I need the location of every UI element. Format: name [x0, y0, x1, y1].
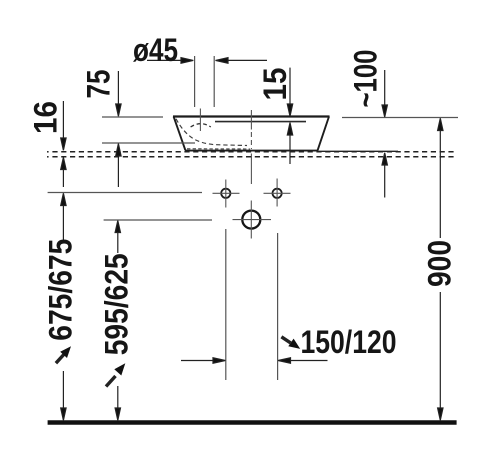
svg-text:675/675: 675/675	[42, 239, 78, 341]
svg-text:595/625: 595/625	[98, 253, 134, 355]
svg-text:75: 75	[80, 70, 116, 99]
svg-text:150/120: 150/120	[301, 324, 397, 360]
svg-text:16: 16	[28, 101, 64, 134]
svg-text:~100: ~100	[348, 50, 384, 108]
svg-text:ø45: ø45	[133, 32, 178, 68]
svg-text:900: 900	[421, 240, 457, 287]
svg-text:15: 15	[257, 68, 293, 101]
